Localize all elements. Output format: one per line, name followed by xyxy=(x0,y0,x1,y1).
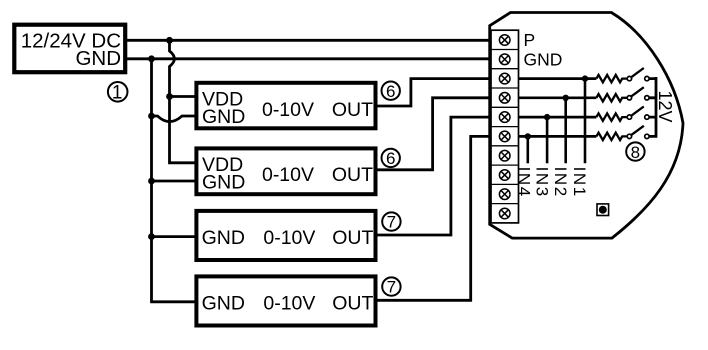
wire terminal 3 row to resistor R1 xyxy=(519,77,597,80)
wire terminal 6 row to resistor R4 xyxy=(519,135,597,138)
junction dot GND box2 xyxy=(148,178,155,185)
svg-text:OUT: OUT xyxy=(332,292,373,314)
svg-text:IN4: IN4 xyxy=(514,167,533,198)
svg-text:8: 8 xyxy=(631,143,640,162)
sensor box 3 (0-10V, GND) xyxy=(196,211,375,260)
junction dot IN4 xyxy=(525,133,531,139)
wire node IN3 down xyxy=(546,117,549,163)
callout 1 xyxy=(108,82,128,104)
resistor R4 xyxy=(596,133,627,140)
callout 7 for box4 xyxy=(382,277,400,296)
svg-text:IN1: IN1 xyxy=(570,167,589,198)
svg-text:GND: GND xyxy=(75,47,121,70)
junction dot GND box3 xyxy=(148,233,155,240)
switch S2 xyxy=(627,87,649,100)
svg-text:0-10V: 0-10V xyxy=(263,227,315,249)
junction dot on P wire xyxy=(166,37,173,44)
svg-text:7: 7 xyxy=(387,213,396,232)
switch S1 xyxy=(627,68,649,81)
svg-text:OUT: OUT xyxy=(332,164,373,186)
svg-text:12V: 12V xyxy=(655,91,675,123)
wire to GND box1 with hop under V+ bus xyxy=(152,116,197,122)
wire GND bus down to GND of box4 xyxy=(152,59,197,302)
junction dot IN2 xyxy=(563,95,569,101)
terminal screws 1-10 xyxy=(499,35,510,219)
svg-text:OUT: OUT xyxy=(332,227,373,249)
wire terminal 4 row to resistor R2 xyxy=(519,96,597,99)
junction dot on GND wire xyxy=(148,55,155,62)
wire OUT box3 to terminal 5 xyxy=(378,117,492,235)
wire to VDD box1 xyxy=(170,95,197,98)
svg-text:6: 6 xyxy=(386,82,395,101)
svg-text:GND: GND xyxy=(202,172,245,194)
wire OUT box4 to terminal 6 xyxy=(378,136,492,300)
callout 7 for box3 xyxy=(382,212,400,231)
12V bus xyxy=(649,77,656,138)
wire V+ bus with hop over GND wire, down to VDD of box2 xyxy=(170,40,197,163)
switch S4 xyxy=(627,126,649,139)
junction dot IN1 xyxy=(582,75,588,81)
resistor R3 xyxy=(596,113,627,120)
callout 6 for box1 xyxy=(382,82,400,101)
resistor R2 xyxy=(596,94,627,101)
junction dot VDD box1 xyxy=(166,93,173,100)
sensor box 4 (0-10V, GND) xyxy=(196,276,375,325)
wire node IN4 down xyxy=(526,136,529,163)
svg-text:7: 7 xyxy=(387,278,396,297)
svg-text:GND: GND xyxy=(202,227,245,249)
svg-text:1: 1 xyxy=(112,83,123,104)
svg-text:GND: GND xyxy=(524,49,563,69)
sensor box 1 (0-10V, VDD/GND) xyxy=(196,83,375,129)
svg-text:0-10V: 0-10V xyxy=(263,292,315,314)
junction dot GND box1 xyxy=(148,113,155,120)
svg-text:GND: GND xyxy=(202,106,245,128)
callout 6 for box2 xyxy=(382,149,400,168)
wire P supply to terminal 1 xyxy=(127,39,491,42)
svg-text:6: 6 xyxy=(386,149,395,168)
sensor box 2 (0-10V, VDD/GND) xyxy=(196,148,375,194)
callout 8 xyxy=(626,142,644,161)
resistor R1 xyxy=(596,75,627,82)
svg-text:0-10V: 0-10V xyxy=(262,164,314,186)
wire OUT box2 to terminal 4 xyxy=(378,98,492,170)
svg-text:0-10V: 0-10V xyxy=(262,99,314,121)
terminal strip xyxy=(491,30,519,223)
wire terminal 5 row to resistor R3 xyxy=(519,116,597,119)
power supply box 12/24V DC xyxy=(14,25,125,72)
svg-text:IN2: IN2 xyxy=(551,167,570,198)
svg-text:IN3: IN3 xyxy=(533,167,552,198)
svg-text:P: P xyxy=(524,30,536,50)
actuator device outline xyxy=(490,13,683,239)
wire to GND box3 xyxy=(152,235,197,238)
svg-text:GND: GND xyxy=(202,292,245,314)
wire node IN2 down xyxy=(564,98,567,164)
svg-text:OUT: OUT xyxy=(332,99,373,121)
switch S3 xyxy=(627,107,649,120)
wire GND supply to terminal 2 xyxy=(127,57,491,60)
wire to GND box2 xyxy=(152,180,197,183)
junction dot IN3 xyxy=(544,114,550,120)
wire OUT box1 to terminal 3 xyxy=(378,79,492,106)
LED indicator square with dot xyxy=(597,204,609,216)
wire node IN1 down xyxy=(584,79,587,164)
